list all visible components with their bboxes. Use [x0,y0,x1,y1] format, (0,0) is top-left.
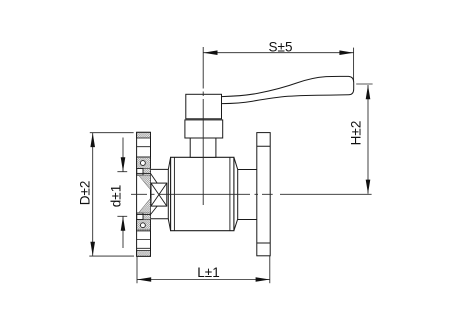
valve body main block [171,157,234,230]
S left arrow [203,50,217,55]
svg-text:S±5: S±5 [269,39,293,54]
svg-text:D±2: D±2 [78,181,93,206]
bore bottom line [136,214,150,216]
ball crossed box [151,183,167,206]
lower square band hatch [143,213,151,220]
dimension d±1 upper line [122,138,124,172]
lower seat hatch triangle [139,198,151,213]
L left arrow [137,277,151,282]
svg-text:L±1: L±1 [197,265,219,280]
lower bolt square [137,213,143,220]
vertical stem center line [202,47,204,205]
right flange [257,133,270,256]
body left weld line [173,157,175,230]
lower bolt circle [141,223,146,228]
ball box diagonals [151,183,167,206]
upper square band hatch [143,169,151,176]
d lower tick [117,215,127,217]
body left end cap [168,157,170,230]
stem neck [190,138,216,157]
right port tube [238,170,257,220]
upper bolt circle [141,161,146,166]
flange bottom hatched band [137,251,151,257]
flange upper bolt hatched band [137,157,151,169]
body right end cap [234,157,238,230]
d upper arrow [121,157,126,171]
left flange plate [137,132,151,256]
gland nut [185,120,223,138]
bore top line [136,172,150,174]
H top extension tick [356,83,372,85]
upper taper diagonal [151,173,158,183]
D top arrow [90,133,95,147]
L left extension line [136,256,138,283]
S right extension line [353,48,355,81]
upper seat hatch triangle [139,175,151,190]
svg-text:H±2: H±2 [348,121,363,146]
L right extension line [269,256,271,283]
S right arrow [339,50,353,55]
body right weld line [229,157,231,230]
horizontal center line [131,193,372,195]
H top arrow [366,85,371,99]
dimension d±1 lower line [122,217,124,249]
dimension L±1 line [137,279,270,281]
flange lower bolt hatched band [137,220,151,232]
right flange step lines [257,146,270,243]
handle lever [222,76,354,103]
H bottom arrow [366,180,371,194]
flange band lines [137,147,151,249]
dimension S±5 line [203,52,353,54]
d lower arrow [121,217,126,231]
dimension H±2 line [367,85,369,194]
flange top hatched band [137,132,151,138]
L right arrow [256,277,270,282]
svg-text:d±1: d±1 [108,185,123,207]
D top extension line [90,132,134,134]
left neck tube [151,169,169,218]
handle hub block [186,94,222,119]
d upper tick [117,171,127,173]
D bottom arrow [90,242,95,256]
D bottom extension line [89,255,134,257]
lower taper diagonal [151,206,158,214]
dimension D±2 line [92,133,94,256]
upper bolt square [137,169,143,176]
